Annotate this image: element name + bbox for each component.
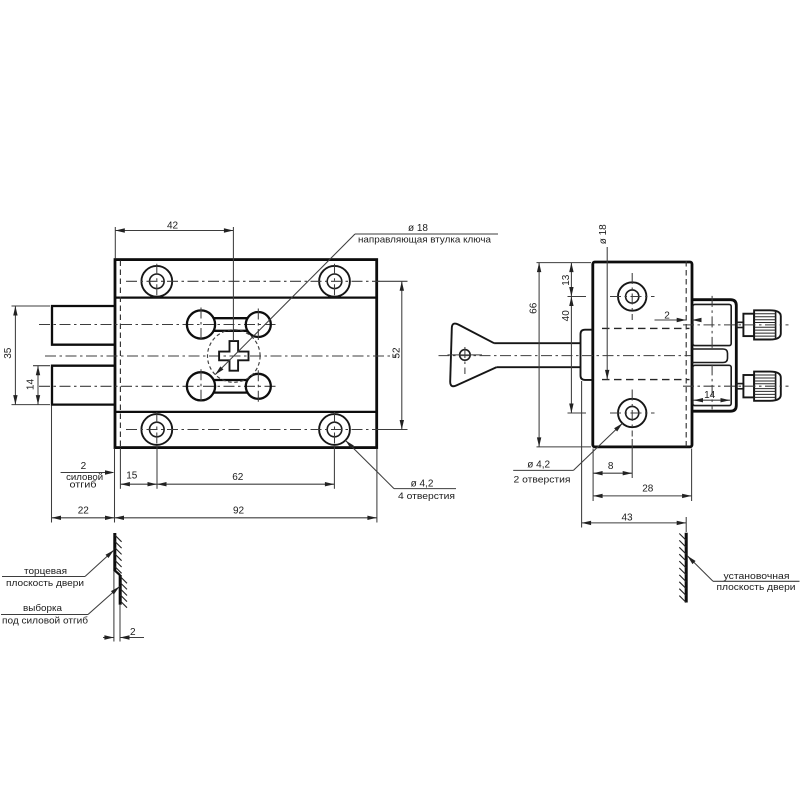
square centerline upper <box>711 296 713 349</box>
svg-text:14: 14 <box>25 379 36 391</box>
square centerline lower <box>711 364 713 409</box>
svg-text:35: 35 <box>3 347 14 359</box>
dimension 14 side view <box>694 390 731 403</box>
svg-text:торцевая: торцевая <box>24 566 67 576</box>
label mounting plane of door <box>686 554 800 592</box>
svg-text:ø 4,2: ø 4,2 <box>411 478 434 489</box>
upper keyhole slot front <box>187 308 271 342</box>
leader d4,2 two holes side <box>513 422 624 485</box>
dimension 92 <box>115 449 377 523</box>
centerline lower keyhole row <box>39 385 278 387</box>
dimension 52 <box>379 281 408 429</box>
dimension 2 gap side view <box>655 310 702 322</box>
front view body plate <box>115 260 377 448</box>
leader d4,2 four holes label front <box>344 439 456 501</box>
side view faceplate flange <box>581 330 593 380</box>
svg-text:выборка: выборка <box>23 603 63 613</box>
dimension 28 <box>593 449 692 502</box>
centerline bottom hole row <box>126 429 380 431</box>
middle tongue <box>692 349 728 363</box>
svg-text:отгиб: отгиб <box>70 480 97 490</box>
svg-text:плоскость двери: плоскость двери <box>6 578 84 588</box>
svg-text:8: 8 <box>608 461 614 472</box>
svg-text:2 отверстия: 2 отверстия <box>514 474 571 484</box>
centerline upper keyhole row <box>39 324 278 326</box>
svg-text:22: 22 <box>78 505 90 516</box>
screw hole top-left front <box>141 264 172 299</box>
dimension 35 <box>3 306 50 405</box>
rear bracket cover <box>692 300 736 412</box>
label recess for bend <box>1 585 121 626</box>
svg-text:52: 52 <box>391 347 402 359</box>
lower bolt bar <box>52 366 115 405</box>
svg-text:4 отверстия: 4 отверстия <box>398 491 455 501</box>
leader d18 guide bushing label <box>214 223 498 376</box>
svg-text:13: 13 <box>561 274 572 286</box>
lower thumb knob <box>736 372 781 401</box>
svg-text:под силовой отгиб: под силовой отгиб <box>2 616 88 626</box>
screw hole bottom-right front <box>319 412 350 447</box>
svg-text:ø 4,2: ø 4,2 <box>527 460 550 471</box>
svg-text:установочная: установочная <box>724 571 790 581</box>
door mounting plane line <box>685 533 688 603</box>
label 2 silovoj otgib <box>61 461 115 490</box>
screw hole upper side <box>610 273 655 320</box>
dimension 43 <box>582 381 687 532</box>
door end plane line (front view) <box>114 533 120 642</box>
screw hole bottom-left front <box>141 412 172 447</box>
upper bolt square section <box>693 304 731 345</box>
dimension 13 <box>561 263 586 297</box>
svg-text:42: 42 <box>167 221 179 232</box>
svg-text:92: 92 <box>233 505 245 516</box>
dimension 14 front <box>25 366 50 405</box>
dimension 40 <box>561 297 586 414</box>
svg-text:15: 15 <box>126 471 138 482</box>
axis upper bolt side view <box>683 324 789 326</box>
svg-text:14: 14 <box>704 390 716 401</box>
svg-text:плоскость двери: плоскость двери <box>717 582 796 592</box>
upper thumb knob <box>736 310 781 339</box>
svg-text:ø 18: ø 18 <box>408 223 428 234</box>
phillips cross key opening <box>219 341 248 371</box>
dimension 62 <box>157 446 334 489</box>
dimension 22 <box>52 406 115 523</box>
axis lower bolt side view <box>683 385 789 387</box>
svg-text:62: 62 <box>232 472 244 483</box>
key bow <box>450 324 496 387</box>
key bushing dashed circle d18 <box>208 330 261 383</box>
key shaft <box>494 342 580 344</box>
door mounting plane dashed extension <box>685 261 687 450</box>
svg-text:66: 66 <box>529 302 540 314</box>
upper bolt bar <box>52 306 115 345</box>
hatching door end plane <box>115 535 127 608</box>
svg-text:2: 2 <box>81 461 87 472</box>
dimension 8 <box>593 439 632 478</box>
side view body <box>593 262 692 447</box>
dimension 42 <box>115 221 233 341</box>
lower keyhole slot front <box>187 369 271 403</box>
hidden lines of d18 bushing <box>602 327 690 329</box>
screw hole top-right front <box>319 264 350 299</box>
screw hole lower side <box>610 390 655 437</box>
key hole <box>448 347 483 374</box>
svg-text:направляющая втулка ключа: направляющая втулка ключа <box>358 235 492 245</box>
svg-text:40: 40 <box>561 310 572 322</box>
dimension 15 <box>120 448 157 489</box>
svg-text:28: 28 <box>642 483 654 494</box>
svg-text:2: 2 <box>664 310 670 321</box>
svg-text:ø 18: ø 18 <box>598 224 609 244</box>
dimension 66 <box>529 263 591 447</box>
main horizontal axis front view <box>45 355 397 357</box>
front view bend (otgib) hidden dashed line <box>119 261 121 448</box>
d18 leader side view <box>598 224 609 380</box>
dimension 2 recess depth <box>103 627 144 640</box>
label door end plane <box>2 548 115 587</box>
hatching mounting plane <box>679 534 686 603</box>
main axis side view <box>439 355 692 357</box>
centerline top hole row <box>126 280 380 282</box>
lower bolt square section <box>693 365 731 405</box>
svg-text:2: 2 <box>130 627 136 638</box>
svg-text:43: 43 <box>621 512 633 523</box>
